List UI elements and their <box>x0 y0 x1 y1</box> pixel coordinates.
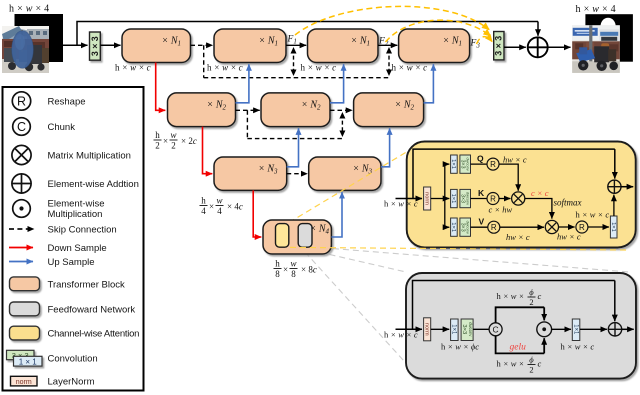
svg-text:R: R <box>490 195 496 204</box>
wire up sample N2-1 to N1-2 blue <box>236 64 249 103</box>
transformer block N2-2 <box>261 93 330 127</box>
wire dwconv to chunk <box>473 328 489 330</box>
label h x w x phi/2 c bottom <box>497 355 542 375</box>
svg-text:c × hw: c × hw <box>489 205 513 215</box>
feedforward network box <box>406 273 636 379</box>
wire skip merge at F2 dashed double arrow <box>388 49 390 74</box>
svg-text:norm: norm <box>424 192 430 205</box>
svg-text:2: 2 <box>171 141 176 151</box>
svg-text:C: C <box>493 325 499 335</box>
transformer block N1-1 <box>122 29 191 63</box>
wire multiply to 1x1 out <box>552 328 571 330</box>
svg-text:dwconv: dwconv <box>468 322 473 337</box>
svg-text:× 2c: × 2c <box>181 136 197 146</box>
convolution 1x1 ffn out <box>572 319 580 341</box>
svg-text:h × w × c: h × w × c <box>392 63 428 73</box>
svg-text:×: × <box>163 136 168 146</box>
feature flow F1 to fusion conv yellow curve <box>295 6 489 35</box>
chunk circle <box>489 323 502 336</box>
svg-text:2: 2 <box>155 141 160 151</box>
svg-text:Element-wise Addtion: Element-wise Addtion <box>48 179 139 190</box>
svg-text:×: × <box>283 265 288 275</box>
svg-text:× 8c: × 8c <box>301 265 317 275</box>
svg-text:Q: Q <box>477 154 484 164</box>
input black frame <box>15 14 64 62</box>
wire up sample N2-2 to N1-3 blue <box>330 64 344 103</box>
svg-text:1×1: 1×1 <box>450 159 456 169</box>
input degraded photo <box>2 26 49 73</box>
svg-text:R: R <box>17 95 26 109</box>
svg-text:dwconv: dwconv <box>466 157 471 170</box>
wire conv to N1-1 <box>100 44 120 46</box>
wire attention input arrow <box>396 198 423 200</box>
convolution 3x3 dwconv Q <box>459 155 470 173</box>
svg-text:Transformer Block: Transformer Block <box>48 279 125 290</box>
wire attention output arrow <box>621 186 633 188</box>
svg-text:1×1: 1×1 <box>572 324 578 335</box>
wire up sample N2-3 to N1-4 blue <box>424 64 434 103</box>
legend skip connection symbol <box>9 228 34 230</box>
svg-text:c: c <box>538 359 542 369</box>
output black frame dome highlight <box>601 18 616 27</box>
svg-text:Multiplication: Multiplication <box>48 209 103 220</box>
wire down sample N1-1 to N2-1 red <box>156 63 166 111</box>
matrix multiplication attnV <box>545 220 558 233</box>
legend layernorm swatch <box>11 376 38 386</box>
transformer block N1-3 <box>308 29 379 63</box>
reshape R V <box>488 221 500 233</box>
wire row2 under skip dashed <box>247 138 342 140</box>
svg-text:R: R <box>491 223 497 232</box>
channel-wise attention box <box>407 142 636 248</box>
wire 1x1 to ffn adder <box>580 328 607 330</box>
svg-text:4: 4 <box>201 206 206 216</box>
zoom indicator yellow line to attention box bottom-right <box>290 247 628 250</box>
convolution 1x1 V <box>450 218 457 236</box>
svg-text:V: V <box>479 217 485 227</box>
svg-text:× 4c: × 4c <box>227 202 243 212</box>
svg-text:1 × 1: 1 × 1 <box>19 357 38 366</box>
svg-text:h: h <box>201 196 206 206</box>
svg-text:Down Sample: Down Sample <box>48 243 107 254</box>
wire up sample N4 to N3-2 blue <box>331 192 342 237</box>
svg-text:h × w ×: h × w × <box>497 359 525 369</box>
transformer block N1-2 <box>214 29 286 63</box>
svg-text:Element-wise: Element-wise <box>48 199 105 210</box>
wire skip N2-1 to N2-2 dashed <box>236 109 260 111</box>
legend reshape symbol <box>12 92 30 110</box>
wire K conv to reshape <box>471 198 488 200</box>
svg-text:3×3: 3×3 <box>459 194 465 203</box>
svg-text:softmax: softmax <box>554 198 582 208</box>
svg-text:Reshape: Reshape <box>48 96 86 107</box>
svg-text:1×1: 1×1 <box>450 194 456 204</box>
convolution 3x3 input <box>90 32 101 60</box>
zoom indicator gray line to ffn box top-right <box>313 247 629 272</box>
svg-text:2: 2 <box>529 297 533 307</box>
svg-text:1×1: 1×1 <box>451 324 457 335</box>
wire F2 to N1-4 <box>378 44 397 46</box>
svg-text:8: 8 <box>291 269 296 279</box>
transformer block N1-4 <box>399 29 470 63</box>
legend convolution swatch 1x1 <box>14 356 43 366</box>
legend feedforward swatch <box>10 302 40 316</box>
svg-text:c: c <box>538 291 542 301</box>
reshape R K <box>487 193 499 205</box>
svg-text:h × w × c: h × w × c <box>384 329 418 339</box>
svg-text:Up Sample: Up Sample <box>48 257 95 268</box>
svg-text:3 × 3: 3 × 3 <box>90 36 100 56</box>
wire reshape out to 1x1 <box>588 226 609 228</box>
convolution 1x1 Q <box>450 155 457 173</box>
wire K to matmul1 <box>499 198 510 200</box>
feature flow F2 to fusion conv yellow curve <box>386 20 491 42</box>
transformer block N2-1 <box>168 93 236 127</box>
svg-text:norm: norm <box>16 379 32 386</box>
zoom indicator yellow line to attention box top-left <box>289 148 414 223</box>
wire Q conv to reshape <box>471 163 488 165</box>
svg-text:4: 4 <box>217 206 222 216</box>
feedforward mini block inside N4 <box>298 224 312 248</box>
svg-text:h × w × c: h × w × c <box>384 199 418 209</box>
transformer block N4 <box>263 220 331 254</box>
svg-text:h × w × c: h × w × c <box>207 63 243 73</box>
convolution 3x3 dwconv ffn <box>461 319 473 341</box>
output restored photo <box>572 25 620 73</box>
svg-text:h × w × ϕc: h × w × ϕc <box>441 342 479 352</box>
svg-text:h × w × c: h × w × c <box>301 63 337 73</box>
channel-wise attention mini block inside N4 <box>276 224 289 248</box>
legend matrix multiplication symbol <box>12 145 31 164</box>
svg-text:h: h <box>275 259 280 269</box>
svg-text:w: w <box>290 259 296 269</box>
wire Q to matmul1 <box>499 164 518 191</box>
wire input to conv <box>63 44 88 46</box>
wire V to matmul2 <box>500 226 544 228</box>
wire attention residual bypass <box>413 149 615 198</box>
svg-text:×: × <box>209 202 214 212</box>
element-wise multiplication ffn <box>537 322 552 337</box>
legend down sample symbol <box>9 247 33 249</box>
svg-text:Skip Connection: Skip Connection <box>48 224 117 235</box>
legend convolution swatch 3x3 <box>7 350 35 360</box>
svg-text:3×3: 3×3 <box>459 160 465 169</box>
element-wise addition attention <box>608 180 621 193</box>
wire up sample N3-1 to N2-2 blue <box>287 128 299 167</box>
wire up sample N3-2 to N2-3 blue <box>381 128 390 167</box>
svg-text:hw × c: hw × c <box>503 155 527 165</box>
transformer block N2-3 <box>354 93 424 127</box>
wire F1 to N1-3 <box>286 44 306 46</box>
wire chunk top branch <box>496 307 545 323</box>
zoom indicator gray line to ffn box top-left <box>310 250 406 272</box>
svg-text:3 × 3: 3 × 3 <box>494 36 504 56</box>
output black frame <box>585 14 633 62</box>
wire down sample N2-1 to N3-1 red <box>203 127 213 174</box>
convolution 1x1 K <box>450 189 457 207</box>
svg-text:Channel-wise Attention: Channel-wise Attention <box>48 329 140 340</box>
svg-text:R: R <box>490 160 496 169</box>
wire skip N3-1 to N3-2 dashed <box>287 173 308 175</box>
svg-text:h × w × c: h × w × c <box>561 342 595 352</box>
label h/8 x w/8 x 8c under N4 <box>274 259 317 280</box>
label h/4 x w/4 x 4c under N3-1 <box>200 196 243 217</box>
svg-text:R: R <box>579 223 585 232</box>
wire skip branch down from N1-1 output <box>203 45 205 77</box>
legend element-wise addition symbol <box>12 174 31 193</box>
svg-text:dwconv: dwconv <box>466 221 471 234</box>
svg-text:3×3: 3×3 <box>461 324 467 334</box>
svg-text:w: w <box>216 196 222 206</box>
legend channel-wise attention swatch <box>10 326 40 340</box>
convolution 1x1 attention out <box>610 216 617 238</box>
wire matmul1 to matmul2 <box>525 199 552 219</box>
wire skip merge at F1 dashed double arrow <box>293 49 295 74</box>
legend transformer block swatch <box>10 277 40 291</box>
wire skip merge between N2-2 and N2-3 dashed double arrow <box>341 114 343 135</box>
wire skip N1-1 to N1-2 dashed <box>191 44 213 46</box>
legend up sample symbol <box>9 261 33 263</box>
svg-text:h × w × c: h × w × c <box>115 63 151 73</box>
svg-text:K: K <box>478 188 485 198</box>
wire matmul2 to reshape out <box>559 226 575 228</box>
svg-text:w: w <box>170 130 176 140</box>
svg-text:Matrix Multiplication: Matrix Multiplication <box>48 150 131 161</box>
svg-text:dwconv: dwconv <box>466 192 471 205</box>
svg-text:1×1: 1×1 <box>610 222 616 232</box>
element-wise addition ffn <box>608 323 621 336</box>
svg-text:3×3: 3×3 <box>459 223 465 232</box>
svg-text:F1: F1 <box>287 35 297 46</box>
wire global skip (input to output adder) <box>77 22 538 46</box>
svg-text:Convolution: Convolution <box>48 353 98 364</box>
svg-text:Chunk: Chunk <box>48 122 76 133</box>
wire ffn residual bypass <box>413 281 615 330</box>
svg-text:h × w ×: h × w × <box>497 291 525 301</box>
wire skip branch down from N2-1 output <box>246 110 248 138</box>
transformer block N3-2 <box>309 157 381 190</box>
svg-text:ϕ: ϕ <box>529 355 534 365</box>
svg-text:LayerNorm: LayerNorm <box>48 376 95 387</box>
svg-text:Feedfoward Network: Feedfoward Network <box>48 304 136 315</box>
layernorm attention <box>424 187 431 210</box>
svg-text:h: h <box>155 130 160 140</box>
wire norm to qkv trunk <box>431 198 445 200</box>
svg-text:h × w × c: h × w × c <box>576 210 610 220</box>
label h/2 x w/2 x 2c under N2-1 <box>154 130 197 151</box>
wire adder to output image <box>548 46 571 48</box>
svg-text:h × w × 4: h × w × 4 <box>9 4 49 15</box>
zoom indicator gray line to ffn box bottom-left <box>305 252 414 372</box>
svg-text:h × w × 4: h × w × 4 <box>576 4 616 15</box>
legend chunk symbol <box>13 118 31 136</box>
reshape R Q <box>487 158 499 170</box>
wire norm to 1x1 ffn <box>431 328 450 330</box>
layernorm ffn <box>424 318 431 341</box>
reshape R out <box>576 221 588 233</box>
transformer block N3-1 <box>214 157 287 190</box>
wire skip N2-2 to N2-3 dashed <box>330 109 352 111</box>
svg-text:norm: norm <box>424 323 430 336</box>
convolution 3x3 dwconv V <box>459 218 470 236</box>
svg-text:2: 2 <box>529 364 533 374</box>
svg-text:1×1: 1×1 <box>450 222 456 232</box>
wire 1x1 up to attention adder <box>613 195 615 216</box>
convolution 3x3 dwconv K <box>459 189 470 207</box>
label h x w x phi/2 c top <box>497 287 542 307</box>
svg-text:hw × c: hw × c <box>557 232 581 242</box>
wire down sample N3-1 to N4 red <box>253 190 261 237</box>
wire ffn input arrow <box>396 328 423 330</box>
svg-text:gelu: gelu <box>510 343 527 353</box>
wire fusion conv to output adder <box>504 46 526 48</box>
legend element-wise multiplication symbol <box>13 200 31 218</box>
feature flow F3 to fusion conv yellow curve <box>477 37 493 44</box>
wire chunk bottom branch gelu <box>496 336 545 354</box>
svg-text:c × c: c × c <box>531 188 549 198</box>
wire row1 under skip dashed <box>204 77 389 79</box>
element-wise addition output <box>528 37 548 57</box>
svg-text:hw × c: hw × c <box>506 232 530 242</box>
wire V conv to reshape <box>471 226 488 228</box>
legend box <box>3 87 144 391</box>
wire ffn output arrow <box>622 328 634 330</box>
convolution 1x1 ffn in <box>451 319 459 341</box>
convolution 3x3 fusion <box>494 32 504 60</box>
svg-text:C: C <box>17 120 26 134</box>
svg-text:8: 8 <box>275 269 280 279</box>
svg-text:ϕ: ϕ <box>529 287 534 297</box>
matrix multiplication QK <box>512 192 525 205</box>
